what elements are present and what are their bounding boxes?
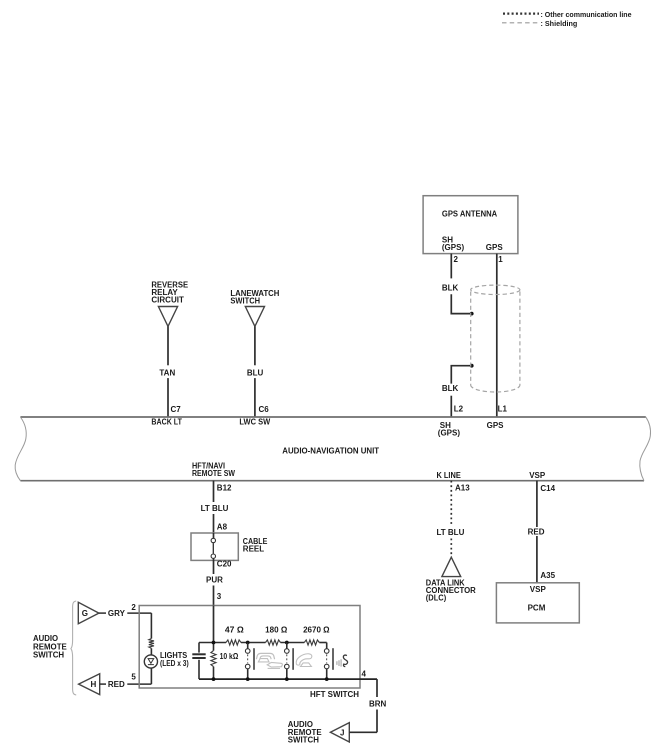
svg-text:C6: C6 <box>259 405 270 414</box>
svg-text:BACK LT: BACK LT <box>151 418 182 427</box>
svg-text:SWITCH: SWITCH <box>230 297 260 306</box>
svg-text:CIRCUIT: CIRCUIT <box>151 296 184 305</box>
svg-text:C20: C20 <box>217 560 232 569</box>
svg-text:4: 4 <box>362 670 367 679</box>
svg-text:LT BLU: LT BLU <box>201 504 229 513</box>
svg-text:L1: L1 <box>498 405 508 414</box>
svg-text:BLK: BLK <box>442 384 459 393</box>
svg-text:3: 3 <box>217 592 222 601</box>
svg-text:PCM: PCM <box>528 604 546 613</box>
svg-text:GPS ANTENNA: GPS ANTENNA <box>442 210 498 219</box>
svg-text:2670 Ω: 2670 Ω <box>303 626 330 635</box>
svg-text:RED: RED <box>108 680 125 689</box>
svg-text:10 kΩ: 10 kΩ <box>220 652 239 661</box>
svg-text:5: 5 <box>131 673 136 682</box>
svg-text:A8: A8 <box>217 522 228 531</box>
svg-text:: Shielding: : Shielding <box>541 19 578 28</box>
svg-text:BRN: BRN <box>369 700 387 709</box>
svg-text:H: H <box>91 680 97 689</box>
svg-text:GRY: GRY <box>108 609 126 618</box>
svg-text:C14: C14 <box>540 484 555 493</box>
svg-text:LT BLU: LT BLU <box>437 528 465 537</box>
svg-text:G: G <box>82 609 88 618</box>
svg-text:HFT SWITCH: HFT SWITCH <box>310 690 359 699</box>
svg-text:180 Ω: 180 Ω <box>265 626 288 635</box>
svg-text:VSP: VSP <box>530 585 547 594</box>
svg-text:(LED x 3): (LED x 3) <box>160 659 189 668</box>
svg-text:SWITCH: SWITCH <box>33 651 64 660</box>
svg-text:RED: RED <box>528 528 545 537</box>
svg-text:B12: B12 <box>217 483 232 492</box>
svg-text:(DLC): (DLC) <box>426 594 447 603</box>
svg-text:VSP: VSP <box>529 471 546 480</box>
svg-text:TAN: TAN <box>159 369 175 378</box>
svg-text:REMOTE SW: REMOTE SW <box>192 469 235 478</box>
svg-text:(GPS): (GPS) <box>438 429 461 438</box>
svg-text:: Other communication line: : Other communication line <box>541 10 632 19</box>
svg-text:(GPS): (GPS) <box>442 243 465 252</box>
svg-text:BLK: BLK <box>442 283 459 292</box>
svg-text:PUR: PUR <box>206 576 223 585</box>
svg-text:A35: A35 <box>540 571 555 580</box>
svg-text:47 Ω: 47 Ω <box>225 626 245 635</box>
svg-text:SWITCH: SWITCH <box>288 736 319 745</box>
svg-text:2: 2 <box>454 255 459 264</box>
svg-text:AUDIO-NAVIGATION UNIT: AUDIO-NAVIGATION UNIT <box>282 446 379 455</box>
svg-text:LWC SW: LWC SW <box>239 418 270 427</box>
svg-text:C7: C7 <box>171 405 182 414</box>
svg-text:K LINE: K LINE <box>437 471 462 480</box>
svg-text:BLU: BLU <box>247 369 264 378</box>
svg-text:GPS: GPS <box>486 243 504 252</box>
svg-text:REEL: REEL <box>243 545 264 554</box>
svg-text:2: 2 <box>131 603 136 612</box>
svg-text:J: J <box>340 729 344 738</box>
svg-text:A13: A13 <box>455 483 470 492</box>
svg-text:L2: L2 <box>454 405 464 414</box>
svg-text:1: 1 <box>498 255 503 264</box>
svg-text:GPS: GPS <box>487 421 505 430</box>
